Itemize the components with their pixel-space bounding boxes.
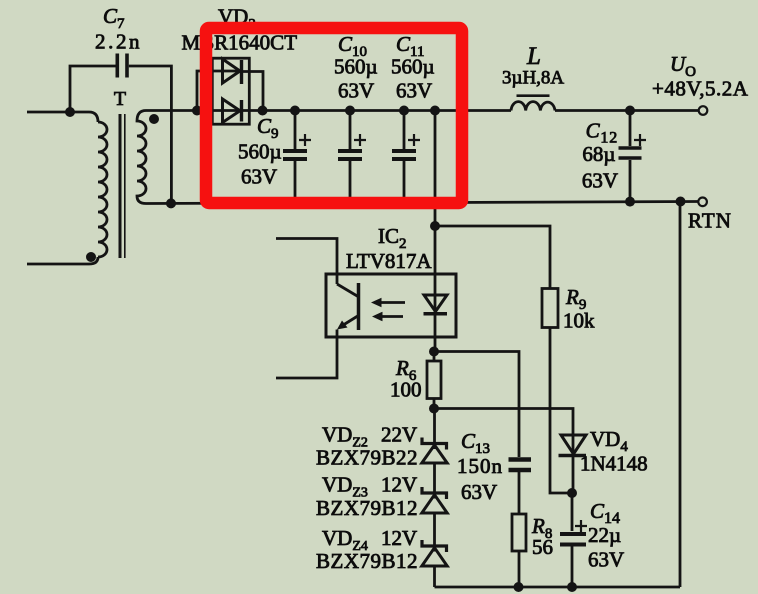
transformer T core xyxy=(119,114,122,258)
svg-text:63V: 63V xyxy=(582,169,618,193)
wire cathode join xyxy=(242,72,264,111)
op-amp IC2 optocoupler box xyxy=(326,274,456,337)
svg-text:2.2n: 2.2n xyxy=(95,30,142,54)
polarity dot secondary xyxy=(149,114,159,124)
node secondary bottom C7 junction xyxy=(166,198,176,208)
svg-text:63V: 63V xyxy=(338,79,374,103)
node C14 bottom xyxy=(567,582,577,592)
wire opto emitter stub xyxy=(276,330,337,379)
capacitor C14 xyxy=(560,493,587,587)
node R6 top xyxy=(429,347,439,357)
wire C7 left lead xyxy=(70,66,116,112)
node diode anode branch xyxy=(192,106,202,116)
transformer T primary winding xyxy=(98,122,107,257)
wire to C13 xyxy=(434,352,519,458)
node C12 bottom xyxy=(625,197,635,207)
polarity dot primary xyxy=(86,252,96,262)
diode IC2 LED xyxy=(424,274,448,352)
wire bus to output xyxy=(555,109,698,112)
svg-text:+48V,5.2A: +48V,5.2A xyxy=(652,77,749,101)
svg-text:150n: 150n xyxy=(457,454,503,478)
svg-text:BZX79B22: BZX79B22 xyxy=(316,446,418,470)
svg-text:56: 56 xyxy=(532,535,553,559)
node C11 top xyxy=(399,106,409,116)
capacitor C13 xyxy=(509,460,532,515)
svg-text:63V: 63V xyxy=(588,548,624,572)
diode package VD2 box xyxy=(212,58,249,124)
node bus rail junction xyxy=(430,106,440,116)
svg-text:63V: 63V xyxy=(396,79,432,103)
svg-text:10k: 10k xyxy=(563,309,595,333)
svg-text:BZX79B12: BZX79B12 xyxy=(316,496,418,520)
svg-text:T: T xyxy=(114,88,126,110)
svg-text:LTV817A: LTV817A xyxy=(346,249,432,273)
svg-text:560µ: 560µ xyxy=(334,55,378,79)
svg-text:3µH,8A: 3µH,8A xyxy=(502,68,564,89)
svg-text:22V: 22V xyxy=(381,423,417,447)
svg-text:100: 100 xyxy=(390,378,422,402)
diode VD2 top half xyxy=(223,59,241,83)
resistor R6 xyxy=(427,352,441,409)
node R6 bottom xyxy=(429,404,439,414)
zener VD_Z2 xyxy=(422,409,447,464)
node R9 branch xyxy=(430,221,440,231)
node VD4 C14 junction xyxy=(567,488,577,498)
node RTN rail junction xyxy=(676,197,686,207)
red highlight frame xyxy=(206,28,462,203)
wire zener bottom xyxy=(433,566,436,587)
svg-text:63V: 63V xyxy=(241,165,277,189)
wire primary bottom xyxy=(27,257,98,264)
svg-text:560µ: 560µ xyxy=(391,55,435,79)
inductor L xyxy=(511,102,555,111)
transistor IC2 phototransistor xyxy=(337,283,359,330)
capacitor C9 xyxy=(283,111,311,204)
inductor L core bar xyxy=(517,94,550,97)
node C10 top xyxy=(345,106,355,116)
zener VD_Z3 xyxy=(422,463,447,513)
capacitor C7 plates xyxy=(117,54,127,78)
wire R8 bottom xyxy=(518,551,521,587)
wire opto collector stub xyxy=(276,239,337,285)
node C12 top xyxy=(625,106,635,116)
capacitor C12 xyxy=(619,111,647,202)
wire opto feed rail xyxy=(434,111,437,275)
wire R9 bottom xyxy=(550,328,572,494)
svg-text:RTN: RTN xyxy=(688,209,732,233)
svg-text:12V: 12V xyxy=(381,526,417,550)
capacitor C10 xyxy=(338,111,366,204)
wire top bus xyxy=(146,109,511,112)
wire top diode anode branch xyxy=(197,71,241,111)
capacitor C11 xyxy=(392,111,420,204)
wire C7 right lead xyxy=(129,66,172,203)
zener VD_Z4 xyxy=(422,513,447,566)
svg-text:1N4148: 1N4148 xyxy=(580,452,648,476)
svg-text:560µ: 560µ xyxy=(238,140,282,164)
svg-text:22µ: 22µ xyxy=(588,523,621,547)
node cathode bus junction xyxy=(258,106,268,116)
wire right rail xyxy=(679,202,682,588)
wire ground bus xyxy=(146,202,698,204)
node C9 top xyxy=(290,106,300,116)
light arrows xyxy=(371,298,405,322)
svg-text:BZX79B12: BZX79B12 xyxy=(316,549,418,573)
terminal RTN xyxy=(698,198,707,207)
svg-text:63V: 63V xyxy=(461,480,497,504)
wire primary top xyxy=(27,112,98,122)
wire R9 branch xyxy=(435,226,550,289)
resistor R8 xyxy=(512,514,526,551)
diode VD4 xyxy=(559,435,587,456)
node C13/R8 bottom xyxy=(514,582,524,592)
terminal Uo xyxy=(699,106,708,115)
svg-text:12V: 12V xyxy=(381,473,417,497)
wire to VD4 xyxy=(434,409,573,494)
node primary-C7 junction xyxy=(65,107,75,117)
resistor R9 xyxy=(542,289,558,328)
svg-text:68µ: 68µ xyxy=(582,142,615,166)
diode VD2 bottom half xyxy=(223,99,241,123)
wire bottom bus xyxy=(435,586,681,589)
transformer T secondary winding xyxy=(137,111,146,204)
svg-text:L: L xyxy=(526,43,541,70)
